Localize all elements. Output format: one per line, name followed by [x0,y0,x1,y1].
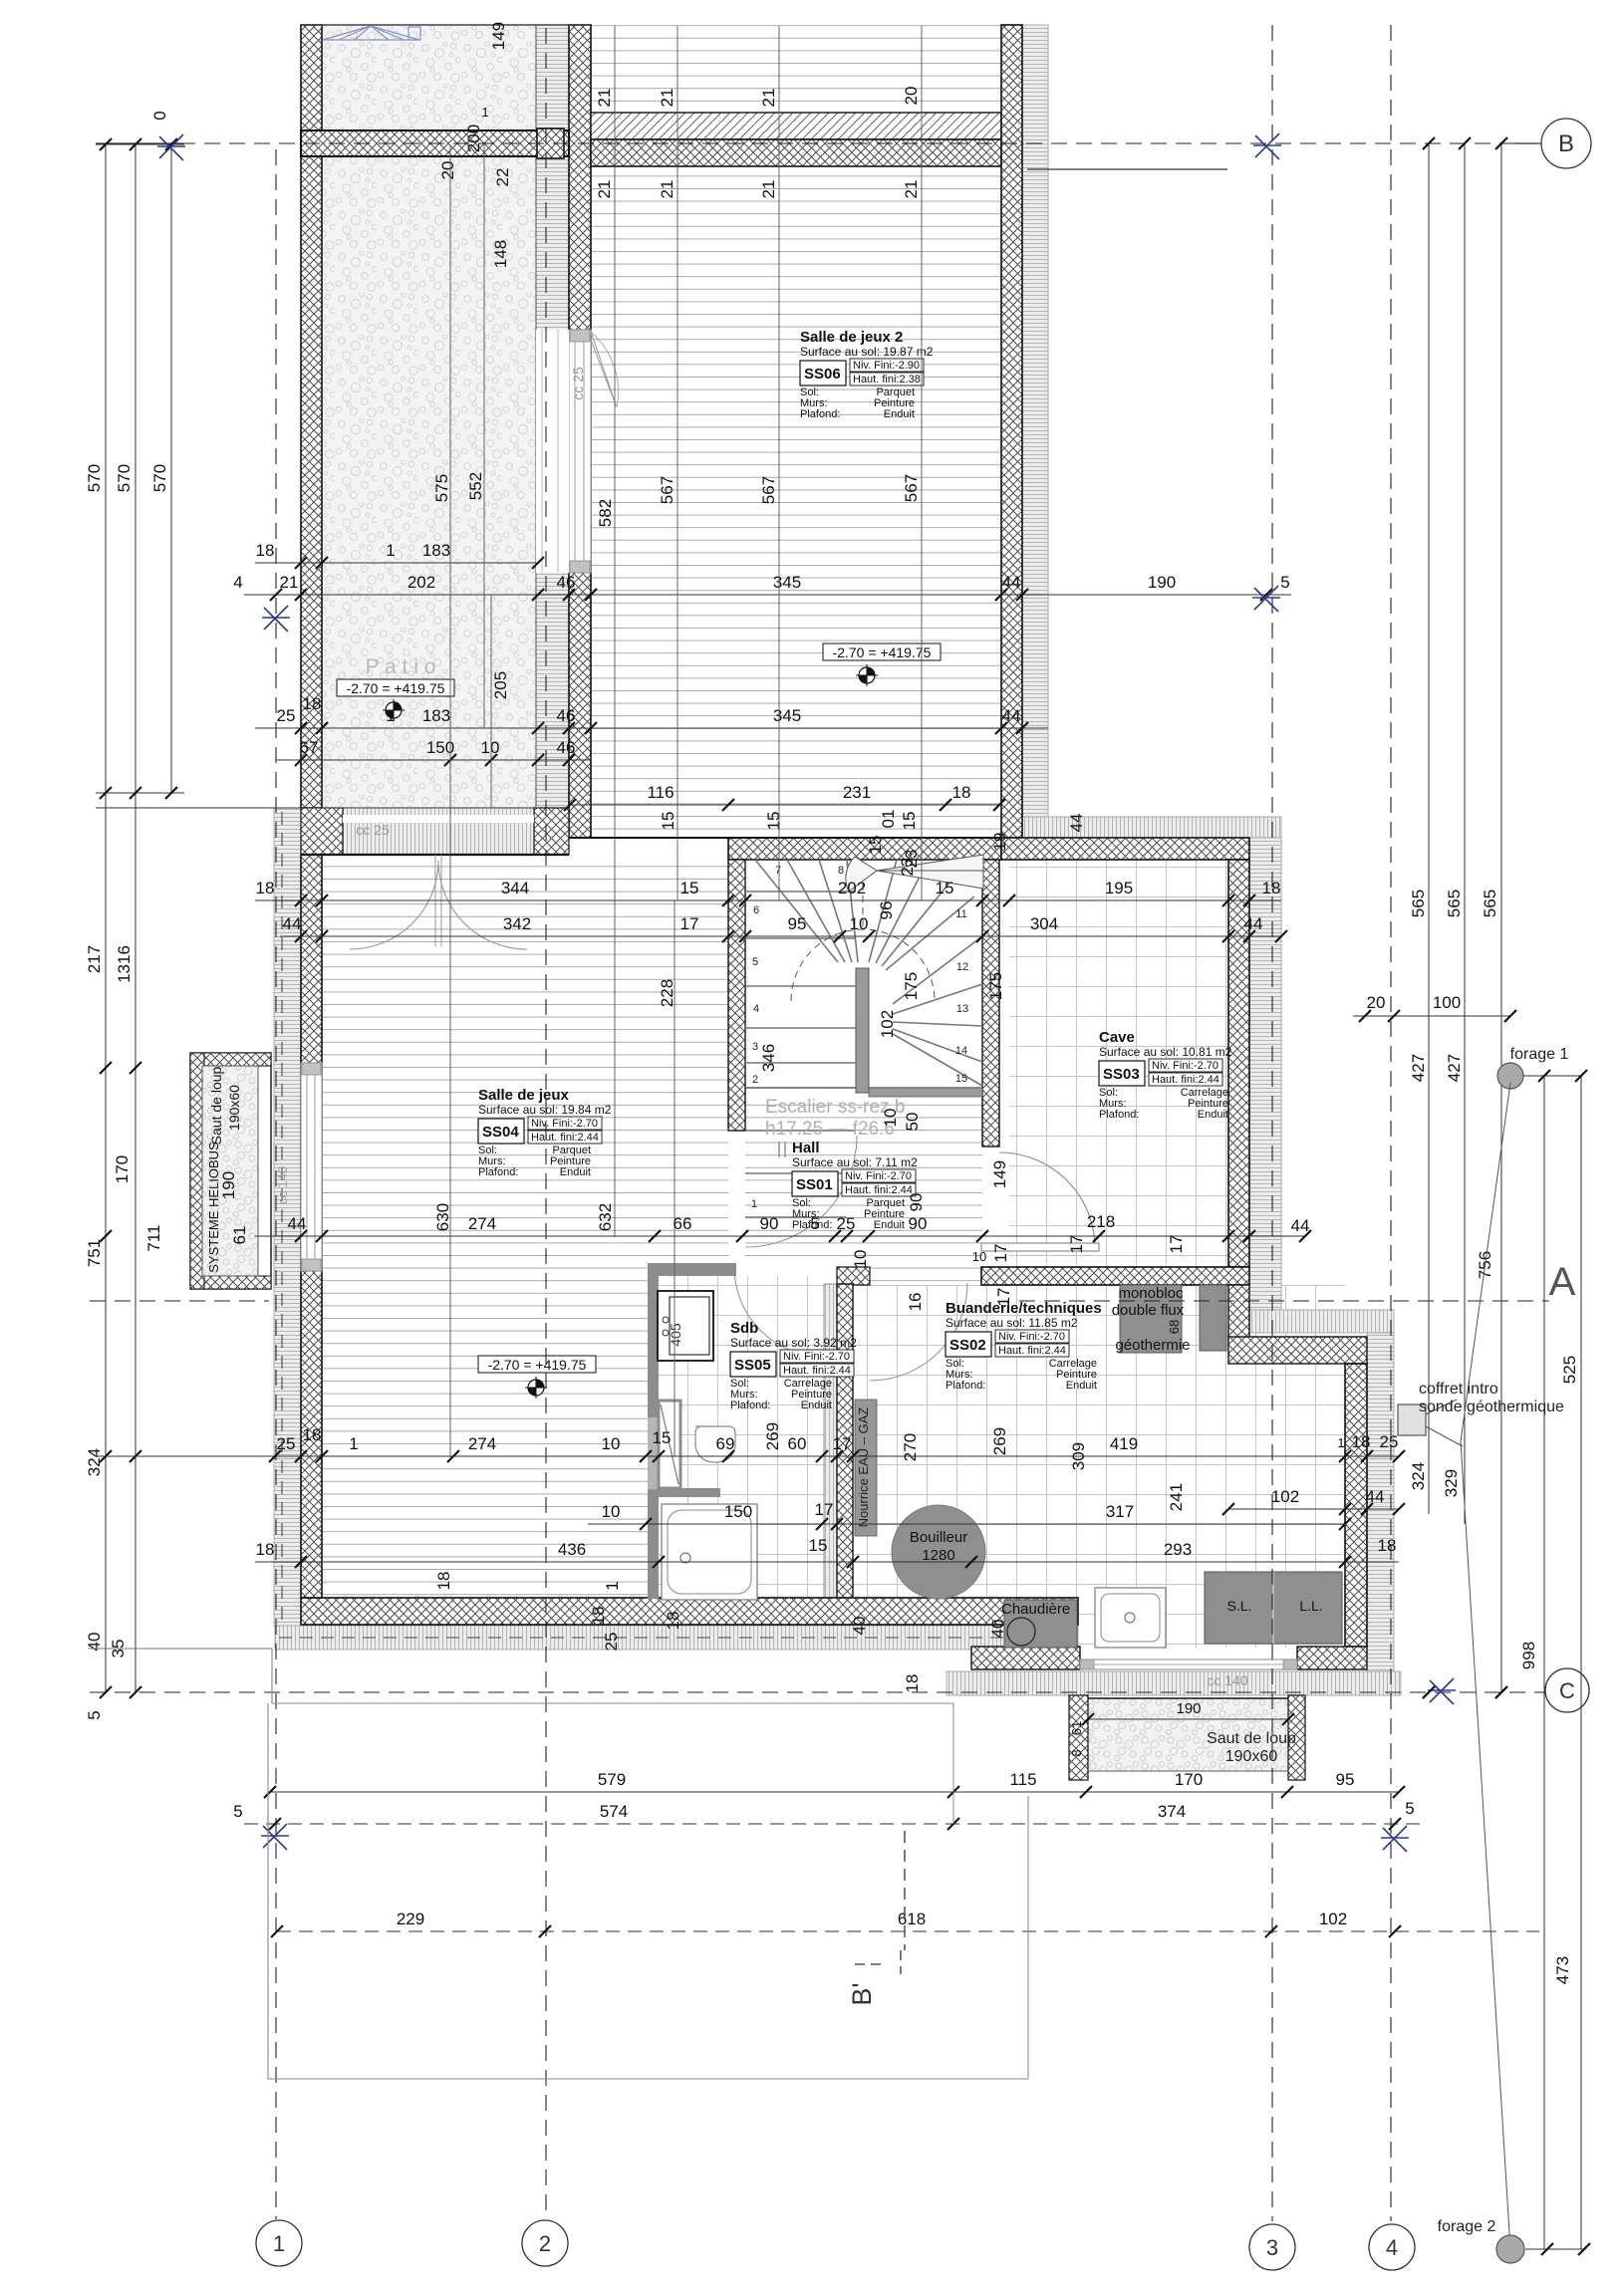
svg-text:17: 17 [991,1244,1010,1263]
svg-text:565: 565 [1445,890,1464,917]
dim row 116/231/18 [569,804,999,806]
svg-text:forage 1: forage 1 [1510,1046,1569,1063]
svg-text:241: 241 [1167,1483,1186,1511]
svg-text:Surface au sol: 19.87 m2: Surface au sol: 19.87 m2 [800,345,934,359]
svg-text:18: 18 [303,1425,322,1444]
svg-text:18: 18 [589,1607,608,1626]
svg-text:Niv. Fini:-2.70: Niv. Fini:-2.70 [783,1351,850,1363]
svg-text:11: 11 [955,908,966,920]
axis A horizontal [90,1300,269,1302]
svg-text:567: 567 [759,476,778,504]
svg-text:8: 8 [838,865,844,877]
insulation dashes [281,812,283,1624]
svg-text:582: 582 [596,499,615,527]
svg-text:44: 44 [1244,914,1263,933]
bottom dashed dim row 229/618/102 [277,1930,1539,1932]
svg-text:274: 274 [468,1434,496,1453]
svg-text:436: 436 [558,1540,586,1559]
svg-text:Salle de jeux: Salle de jeux [478,1087,570,1104]
grid axis 2 [545,28,547,2219]
svg-text:Enduit: Enduit [884,408,915,420]
svg-text:20: 20 [902,87,921,106]
svg-text:Haut. fini:2.44: Haut. fini:2.44 [1152,1074,1219,1086]
svg-text:18: 18 [1352,1432,1371,1451]
X mark axis B right [1253,133,1281,159]
grid axis 3 [1271,25,1273,2221]
svg-text:17: 17 [680,914,699,933]
south window strip cc140 [1080,1659,1297,1669]
svg-text:12: 12 [956,961,968,973]
dim row 18/436/15 293/18 [255,1561,1399,1563]
svg-text:40: 40 [988,1620,1007,1639]
svg-text:567: 567 [902,474,921,502]
svg-text:-2.70 = +419.75: -2.70 = +419.75 [347,680,445,696]
west wall of salle de jeux [301,855,322,1598]
tremie bowtie above stairs [846,855,983,892]
svg-text:5: 5 [752,956,758,968]
svg-text:15: 15 [653,1428,672,1447]
chaudiere [1004,1600,1077,1648]
insulation band south of buanderie [947,1671,1401,1695]
svg-text:40: 40 [850,1617,869,1636]
wall south of salle de jeux 2 above stairs [728,838,1001,860]
svg-text:18: 18 [256,541,275,560]
svg-text:3: 3 [1266,2235,1278,2260]
svg-text:20: 20 [1367,993,1386,1012]
svg-text:66: 66 [674,1214,692,1233]
left vertical dimension lines [105,144,107,1692]
svg-text:17: 17 [994,1288,1013,1307]
svg-text:Plafond:: Plafond: [730,1400,770,1411]
section mark B prime [855,1950,901,1974]
svg-text:570: 570 [85,464,104,492]
svg-text:17: 17 [1067,1235,1086,1254]
svg-text:269: 269 [990,1427,1009,1455]
insulation band south of building [275,1626,1078,1650]
wall between sdb and buanderie [824,1284,837,1599]
window in patio east wall (cc25) [569,330,591,573]
wall stub west of buanderie door [837,1267,870,1285]
svg-text:21: 21 [902,180,921,199]
svg-text:618: 618 [898,1910,926,1928]
svg-text:293: 293 [1164,1540,1192,1559]
svg-text:345: 345 [773,706,801,725]
svg-text:205: 205 [491,671,510,699]
svg-text:16: 16 [906,1293,925,1312]
svg-text:751: 751 [85,1239,104,1267]
svg-text:20: 20 [438,161,457,180]
svg-text:15: 15 [866,836,885,855]
svg-text:570: 570 [150,464,169,492]
svg-text:Enduit: Enduit [560,1166,591,1178]
stub line right of building at y170 [1027,168,1227,170]
svg-text:15: 15 [809,1536,828,1555]
buanderie sink [1095,1588,1166,1648]
dim row 18/344/15 202/15/195/18 [255,899,1281,901]
svg-text:374: 374 [1158,1802,1186,1821]
stair treads left flight [745,892,856,1217]
svg-text:15: 15 [900,812,919,831]
svg-text:150: 150 [724,1502,752,1521]
svg-text:Hall: Hall [792,1140,820,1156]
insulation band step south-east of cave [1247,1310,1394,1333]
wall south of cave / north of buanderie [981,1267,1249,1285]
svg-text:324: 324 [85,1448,104,1476]
svg-text:6: 6 [753,904,759,916]
svg-text:574: 574 [600,1802,628,1821]
X mark on axis C at dim line [1428,1678,1456,1704]
svg-text:18: 18 [664,1612,682,1631]
svg-text:116: 116 [647,783,674,802]
svg-text:10: 10 [881,1109,900,1128]
svg-text:Chaudière: Chaudière [1001,1601,1070,1618]
insulation band west of salle de jeux [274,808,301,1627]
svg-text:C: C [1559,1678,1575,1703]
svg-text:102: 102 [1271,1487,1299,1506]
svg-text:61: 61 [230,1226,249,1245]
svg-text:Plafond:: Plafond: [478,1166,518,1178]
forage1 dim ticks [1523,1075,1581,1077]
svg-text:149: 149 [990,1160,1009,1188]
beam band in salle de jeux 2 : crosshatched part [591,139,1001,166]
svg-text:21: 21 [759,89,778,108]
svg-text:monobloc: monobloc [1118,1285,1184,1302]
svg-text:18: 18 [952,783,971,802]
svg-text:Haut. fini:2.38: Haut. fini:2.38 [853,374,921,385]
svg-text:Surface au sol: 7.11 m2: Surface au sol: 7.11 m2 [792,1155,918,1169]
svg-text:Enduit: Enduit [874,1219,905,1231]
svg-text:21: 21 [658,180,676,199]
svg-text:18: 18 [903,1674,922,1693]
svg-text:427: 427 [1445,1054,1464,1082]
svg-text:8: 8 [1069,1749,1084,1756]
svg-text:Saut de loup: Saut de loup [208,1066,224,1145]
svg-text:95: 95 [1336,1770,1355,1789]
svg-text:double flux: double flux [1112,1302,1185,1319]
salle de jeux level [478,1356,596,1373]
X mark grid3 [1252,586,1280,612]
sdb shower screen [659,1401,680,1488]
svg-text:405: 405 [668,1323,683,1347]
svg-text:50: 50 [903,1113,922,1132]
svg-text:18: 18 [1262,879,1281,897]
svg-text:4: 4 [753,1003,759,1015]
svg-text:579: 579 [598,1770,626,1789]
svg-text:21: 21 [595,180,614,199]
svg-text:100: 100 [1433,993,1461,1012]
dim row 10/150/17 317 102/44 [588,1523,1345,1525]
svg-text:Surface au sol: 3.92 m2: Surface au sol: 3.92 m2 [730,1336,857,1350]
svg-text:10: 10 [972,1249,986,1264]
svg-text:96: 96 [877,901,896,920]
svg-text:17: 17 [815,1500,834,1519]
salle de jeux 2 level [823,643,941,660]
sdb walls (gray) [648,1263,736,1276]
svg-text:SS05: SS05 [734,1357,771,1374]
svg-text:68: 68 [1167,1320,1182,1334]
svg-text:90: 90 [760,1214,779,1233]
svg-text:21: 21 [759,180,778,199]
bottom dim row 579/115/170/95 [270,1791,1399,1793]
svg-text:1: 1 [751,1198,757,1210]
svg-text:1316: 1316 [115,945,134,983]
svg-text:345: 345 [773,573,801,592]
svg-text:148: 148 [491,240,510,268]
svg-text:Haut. fini:2.44: Haut. fini:2.44 [845,1184,913,1196]
stair walking line dashed arc [791,929,935,1001]
svg-text:1: 1 [386,541,395,560]
svg-text:102: 102 [1319,1910,1347,1928]
svg-text:228: 228 [658,979,676,1007]
grid bubble 1 [256,2220,302,2266]
svg-text:632: 632 [596,1203,615,1231]
svg-text:B: B [1558,130,1574,157]
svg-text:10: 10 [481,738,500,757]
svg-text:269: 269 [763,1422,782,1450]
dim row 25/1/274/10 15/69/60/17 419 [96,1455,1399,1457]
svg-text:0: 0 [150,111,169,120]
svg-text:44: 44 [1067,814,1086,833]
double door patio to salle de jeux [350,861,438,949]
svg-text:1280: 1280 [922,1547,954,1564]
svg-text:190x60: 190x60 [226,1085,242,1131]
insulation band east of patio [536,25,569,808]
wall band across patio at axis B [301,130,569,156]
X mark axis0 left [157,134,185,160]
grid axis 1 [275,149,277,2219]
svg-text:Cave: Cave [1099,1029,1135,1046]
forage 2 [1496,2235,1524,2263]
svg-text:195: 195 [1105,879,1133,897]
window swing cc25 [591,332,617,407]
svg-text:4: 4 [233,573,242,592]
grid bubble 3 [1249,2224,1295,2270]
dim row 4/21/202/46/345/44/190/5 [244,594,1291,596]
svg-text:17: 17 [833,1434,852,1453]
buanderie SS02 tiled floor [853,1285,1345,1648]
svg-text:22: 22 [493,168,512,187]
grid bubble C [1545,1668,1589,1712]
svg-text:13: 13 [956,1003,968,1015]
terrain outline left [88,1648,272,1650]
bouilleur [892,1505,985,1599]
svg-text:190x60: 190x60 [1225,1748,1278,1765]
vertical dim extension lines in salle de jeux 2 [614,26,616,167]
svg-text:44: 44 [1366,1487,1385,1506]
svg-text:Surface au sol: 19.84 m2: Surface au sol: 19.84 m2 [478,1103,612,1117]
svg-text:Plafond:: Plafond: [1099,1109,1139,1121]
svg-text:15: 15 [680,879,699,897]
svg-text:Enduit: Enduit [1198,1109,1228,1121]
svg-text:cc 140: cc 140 [1207,1672,1247,1688]
svg-text:P a t i o: P a t i o [366,655,436,678]
svg-text:342: 342 [503,914,531,933]
svg-text:cc 25: cc 25 [570,367,586,400]
beam band in salle de jeux 2 : diagonal hatched part [591,113,1001,139]
svg-text:-2.70 = +419.75: -2.70 = +419.75 [488,1357,587,1373]
svg-text:forage 2: forage 2 [1438,2218,1496,2235]
svg-text:170: 170 [1175,1770,1203,1789]
svg-text:5: 5 [233,1802,242,1821]
svg-text:90: 90 [909,1214,928,1233]
svg-text:2: 2 [752,1074,758,1086]
patio south band with cc25 vent [301,808,569,855]
insulation band east of buanderie [1367,1333,1394,1671]
svg-text:149: 149 [489,22,508,50]
stair winder treads radiating [755,860,982,1086]
buanderie east wall [1345,1364,1367,1647]
svg-text:Niv. Fini:-2.70: Niv. Fini:-2.70 [998,1331,1065,1343]
svg-text:473: 473 [1553,1956,1572,1984]
svg-text:Niv. Fini:-2.90: Niv. Fini:-2.90 [853,360,920,372]
svg-text:10: 10 [850,914,869,933]
svg-text:44: 44 [288,1214,307,1233]
svg-text:1: 1 [349,1434,358,1453]
svg-text:5: 5 [85,1710,104,1719]
dim row 67/150/10/46 [276,759,591,761]
wall east of salle de jeux 2 [1001,25,1022,838]
svg-text:10: 10 [602,1434,621,1453]
svg-text:10: 10 [851,1250,870,1269]
sdb washbasin [658,1291,713,1361]
svg-text:19: 19 [990,833,1009,852]
svg-text:4: 4 [1386,2235,1398,2260]
svg-text:190: 190 [219,1171,238,1199]
svg-text:Saut de loup: Saut de loup [1207,1730,1296,1747]
svg-text:190: 190 [1176,1700,1201,1717]
terrain rectangle [272,1702,953,1704]
svg-text:18: 18 [434,1572,453,1591]
svg-text:L.L.: L.L. [1299,1598,1322,1614]
svg-text:200: 200 [464,125,483,152]
svg-text:44: 44 [1291,1216,1310,1235]
svg-text:175: 175 [902,972,921,1000]
svg-text:14: 14 [955,1045,967,1057]
svg-text:Plafond:: Plafond: [946,1380,985,1392]
svg-text:552: 552 [466,472,485,500]
svg-text:15: 15 [955,1073,967,1085]
svg-text:570: 570 [115,464,134,492]
saut de loup south left flank wall [1069,1695,1088,1780]
svg-text:21: 21 [280,573,299,592]
svg-text:525: 525 [1560,1356,1579,1384]
svg-text:170: 170 [113,1155,132,1183]
door sdb [734,1267,824,1357]
dim row 44/342/17 95/10/304/44 [280,935,1281,937]
svg-text:10: 10 [602,1502,621,1521]
svg-text:5: 5 [1280,573,1289,592]
svg-text:Salle de jeux 2: Salle de jeux 2 [800,329,903,346]
svg-text:95: 95 [788,914,807,933]
svg-text:01: 01 [879,810,898,829]
washing machines S.L. L.L. [1205,1572,1342,1644]
svg-text:23: 23 [898,858,917,877]
svg-text:7: 7 [775,865,781,877]
svg-text:2: 2 [539,2231,551,2256]
svg-text:Sdb: Sdb [730,1320,758,1337]
patio stippled floor [322,25,538,808]
svg-text:5: 5 [810,1214,819,1233]
monobloc corner wall column [1228,1285,1249,1340]
svg-text:SS02: SS02 [949,1337,986,1354]
sdb bath tub [662,1504,757,1600]
svg-text:SS03: SS03 [1103,1066,1140,1083]
svg-text:Haut. fini:2.44: Haut. fini:2.44 [998,1345,1066,1357]
svg-text:15: 15 [659,812,677,831]
svg-text:324: 324 [1409,1462,1428,1490]
svg-text:SS06: SS06 [804,366,841,383]
skylight symbol blue [323,26,420,40]
svg-text:567: 567 [658,476,676,504]
svg-text:60: 60 [788,1434,807,1453]
stair escalier ss-rez outline [745,860,982,1088]
svg-text:1: 1 [1337,1435,1344,1450]
svg-text:Surface au sol: 11.85 m2: Surface au sol: 11.85 m2 [946,1316,1078,1330]
svg-text:69: 69 [716,1434,735,1453]
buanderie north-east step wall [1228,1337,1367,1364]
svg-text:175: 175 [986,972,1005,1000]
grid bubble 2 [522,2220,568,2266]
svg-text:231: 231 [843,783,871,802]
saut de loup west box frame [190,1053,271,1289]
svg-text:S.L.: S.L. [1227,1598,1252,1614]
svg-text:44: 44 [283,914,302,933]
svg-text:Nourrice EAU – GAZ: Nourrice EAU – GAZ [856,1407,871,1528]
sdb SS05 tiled floor [659,1276,837,1599]
stair landing strip [869,1088,982,1097]
svg-text:190: 190 [1148,573,1176,592]
svg-text:202: 202 [407,573,435,592]
svg-text:cc 25: cc 25 [356,822,390,838]
svg-text:317: 317 [1106,1502,1134,1521]
grid bubble 4 [1369,2224,1415,2270]
svg-text:565: 565 [1481,890,1499,917]
svg-text:346: 346 [759,1044,778,1072]
svg-text:229: 229 [397,1910,424,1928]
svg-text:61: 61 [1069,1721,1084,1735]
svg-text:44: 44 [1002,573,1021,592]
svg-text:1: 1 [603,1581,622,1590]
svg-text:711: 711 [144,1224,163,1251]
svg-text:217: 217 [85,945,104,973]
svg-text:SYSTEME HELIOBUS: SYSTEME HELIOBUS [206,1142,221,1273]
south wall of buanderie (east part) [1297,1647,1367,1669]
svg-text:25: 25 [277,1434,296,1453]
svg-text:304: 304 [1030,914,1058,933]
svg-text:SS04: SS04 [482,1124,519,1141]
wall north of cave [1001,838,1249,860]
svg-text:5: 5 [1405,1799,1414,1818]
svg-text:cc 140: cc 140 [275,1166,290,1204]
svg-text:SS01: SS01 [796,1176,833,1193]
salle de jeux SS04 parquet floor [322,860,728,1598]
svg-text:630: 630 [433,1203,452,1231]
right vertical dimension lines [1428,143,1430,1514]
svg-text:Haut. fini:2.44: Haut. fini:2.44 [531,1132,599,1144]
insulation band east of cave [1249,838,1281,1310]
south wall of salle de jeux / sdb [301,1598,1078,1625]
svg-text:183: 183 [422,541,450,560]
svg-text:Buanderie/techniques: Buanderie/techniques [946,1300,1102,1317]
svg-text:17: 17 [1167,1235,1186,1254]
svg-text:sonde géothermique: sonde géothermique [1419,1399,1564,1415]
svg-text:344: 344 [501,879,529,897]
grid axis 4 [1390,25,1392,2221]
door hall to cave [999,1152,1095,1248]
svg-text:géothermie: géothermie [1115,1337,1190,1354]
nourrice EAU - GAZ [855,1400,877,1536]
dim row hall 274/66/90/5/25/90/218 [255,1235,1305,1237]
